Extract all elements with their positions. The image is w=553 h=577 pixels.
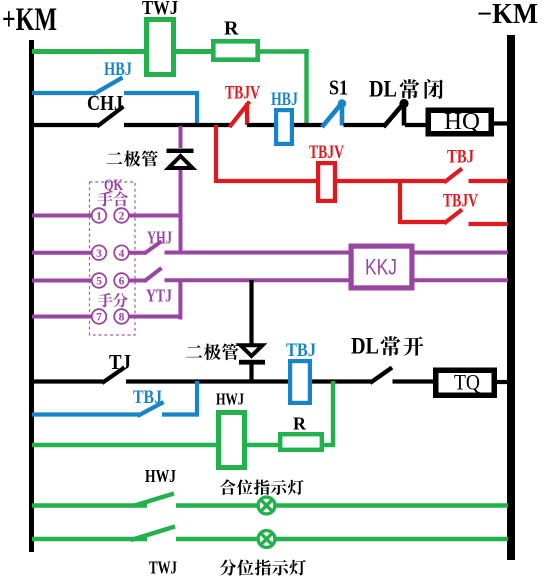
label TBJ (red contact) [447, 147, 474, 168]
wire +KM to terminal 5 [32, 279, 92, 283]
wire +KM to HWJ coil [32, 443, 218, 447]
wire +KM to TBJ contact (blue) [32, 412, 139, 416]
terminal 7 [92, 309, 107, 324]
contact TBJV blade [230, 102, 250, 128]
power bus -KM label [477, 0, 538, 30]
contact YTJ blade [144, 268, 162, 282]
wire TBJV coil to branch node [337, 179, 402, 183]
switch block QK dashed outline [90, 182, 136, 335]
wire R to node at main row [260, 49, 309, 54]
wire HBJ coil to S1 [294, 123, 323, 127]
relay coil TWJ [147, 20, 174, 75]
contact TJ blade [102, 368, 125, 384]
svg-text:−KM: −KM [477, 0, 538, 30]
diode D1 (cathode bar) [167, 149, 194, 153]
contact TBJV blade (red, lower) [444, 210, 462, 224]
wire YHJ contact to KKJ [165, 251, 351, 255]
diode D2 (cathode bar) [239, 360, 265, 365]
terminal 4 [114, 245, 129, 260]
wire TWJ coil to resistor R [176, 49, 213, 54]
wire purple vertical from main row to QK row 1-2 [179, 126, 183, 254]
contact HWJ blade (lamp row) [133, 494, 174, 507]
label CHJ [87, 91, 123, 115]
wire terminal 6 to YTJ contact [129, 279, 146, 283]
terminal 1 [92, 208, 107, 223]
wire TBJV contact to HBJ coil [247, 123, 276, 127]
label S1 [329, 76, 348, 100]
wire +KM to HWJ lamp contact [32, 503, 147, 507]
label DL chang-kai (DL normally open) [351, 334, 423, 359]
relay coil TBJV [318, 163, 335, 201]
label TBJ (blue coil) [286, 340, 316, 361]
label TBJV (coil) [309, 142, 344, 163]
svg-text:KKJ: KKJ [365, 255, 397, 280]
terminal 6 [114, 273, 129, 288]
contact HBJ blade [93, 78, 123, 95]
contact CHJ blade [97, 107, 124, 127]
label fen-wei indicator (open position lamp) [220, 559, 306, 575]
diode D2 (triangle, pointing down) [241, 345, 263, 356]
indicator lamp LD (open position) [258, 531, 275, 548]
svg-text:TWJ: TWJ [142, 0, 178, 19]
wire TBJ coil to DL normally-open contact [312, 379, 371, 383]
wire terminal 2 to vertical [129, 214, 182, 218]
wire TBJV contact to -KM bus [469, 222, 509, 226]
wire YTJ contact to KKJ [165, 278, 351, 282]
label shou-he (manual close) [97, 191, 128, 206]
resistor R (top) [213, 41, 257, 59]
contact TBJ blade (red) [444, 169, 462, 183]
label DL chang-bi (DL normally closed) [369, 77, 443, 102]
svg-text:DL: DL [369, 77, 397, 102]
wire lamp to -KM bus (row 2) [275, 537, 508, 541]
wire HWJ coil to resistor R [247, 443, 280, 447]
label KKJ [365, 255, 397, 280]
label QK [104, 177, 123, 194]
wire +KM to terminal 1 [32, 214, 92, 218]
label HWJ (lamp contact) [145, 466, 176, 486]
wire purple vertical terminal row 5-6 to row 7-8 [178, 280, 182, 320]
wire red vertical branch drop [398, 181, 402, 224]
diode D1 (triangle, pointing up) [169, 156, 193, 168]
wire +KM to TJ contact [32, 379, 103, 383]
wire blue vertical up to TJ row [195, 381, 199, 416]
power bus -KM (right vertical bus) [507, 35, 515, 560]
label R (top) [224, 18, 239, 40]
contact YHJ blade [144, 241, 162, 254]
wire TJ contact to TBJ coil [126, 379, 290, 383]
label HQ [444, 109, 480, 135]
wire green vertical up to TJ row [331, 381, 335, 447]
svg-text:HBJ: HBJ [104, 59, 132, 80]
wire diode 2 to TJ row [249, 364, 253, 383]
wire terminal 8 to vertical [129, 315, 182, 319]
svg-text:HWJ: HWJ [145, 466, 176, 486]
relay coil TBJ [290, 361, 310, 403]
contact TBJ blade (blue) [138, 402, 164, 416]
svg-text:HWJ: HWJ [216, 390, 244, 409]
wire red to TBJV coil [216, 179, 318, 183]
svg-text:R: R [293, 414, 307, 434]
power bus +KM label [2, 2, 57, 38]
wire KKJ bottom to -KM bus [414, 278, 508, 282]
wire CHJ to TBJV contact [124, 123, 231, 127]
wire TBJ contact to -KM bus [469, 179, 509, 183]
indicator lamp HD (closed position) [258, 497, 275, 514]
label HWJ (coil) [216, 390, 244, 409]
label HBJ (coil) [271, 89, 298, 110]
svg-text:DL: DL [351, 334, 379, 359]
label TJ [109, 350, 131, 374]
svg-text:5: 5 [96, 276, 102, 288]
svg-text:S1: S1 [329, 76, 348, 100]
svg-text:QK: QK [104, 177, 123, 194]
svg-text:R: R [224, 18, 239, 40]
wire lamp to -KM bus [275, 503, 508, 507]
wire branch to TBJ contact [400, 179, 445, 183]
wire HBJ vertical drop to main row [195, 91, 199, 125]
label TBJV (contact on main row) [225, 83, 260, 104]
wire TQ to -KM bus [497, 380, 508, 384]
resistor R (bottom) [280, 434, 322, 450]
wire terminal 4 to YHJ contact [129, 251, 146, 255]
svg-text:+KM: +KM [2, 2, 57, 38]
wire HWJ contact to lamp [176, 503, 259, 507]
wire +KM to CHJ contact [32, 123, 99, 127]
switch S1 blade [322, 99, 346, 127]
wire KKJ top to -KM bus [414, 251, 508, 255]
svg-text:6: 6 [119, 276, 125, 288]
label TQ [454, 370, 480, 395]
closing coil HQ box [428, 110, 491, 134]
label HBJ (contact) [104, 59, 132, 80]
svg-text:TBJV: TBJV [309, 142, 344, 163]
wire vertical green drop to main row [304, 49, 308, 126]
label TWJ [142, 0, 178, 19]
svg-text:1: 1 [96, 211, 102, 223]
tripping coil TQ box [436, 370, 495, 395]
wire HBJ contact to vertical drop [124, 91, 199, 95]
wire branch to TBJV contact [400, 220, 445, 224]
svg-text:YTJ: YTJ [146, 286, 172, 306]
label he-wei indicator (closed position lamp) [220, 479, 304, 495]
relay coil HBJ [276, 110, 292, 144]
wire +KM to HBJ contact [32, 91, 95, 95]
svg-text:TWJ: TWJ [149, 558, 177, 577]
svg-text:TBJ: TBJ [286, 340, 316, 361]
wire TWJ contact to lamp [176, 537, 259, 541]
svg-text:TBJV: TBJV [225, 83, 260, 104]
relay coil HWJ [219, 413, 245, 468]
wire from KKJ bottom line down to diode 2 [249, 280, 253, 344]
label R (bottom) [293, 414, 307, 434]
terminal 2 [114, 208, 129, 223]
label diode 1 (er-ji-guan) [107, 150, 158, 166]
wire DL contact to TQ coil [393, 379, 438, 383]
svg-text:TBJ: TBJ [447, 147, 474, 168]
label TBJV (red contact) [443, 191, 478, 212]
wire DL contact to HQ coil [405, 123, 430, 127]
contact TWJ blade (lamp row) [131, 527, 175, 541]
wire S1 to DL normally-closed contact [344, 123, 386, 127]
power bus +KM (left vertical bus) [29, 40, 34, 552]
svg-text:8: 8 [119, 312, 125, 324]
svg-text:7: 7 [96, 312, 102, 324]
wire +KM to TWJ lamp contact [32, 537, 147, 541]
wire R to green vertical [324, 443, 335, 447]
svg-text:3: 3 [96, 248, 102, 260]
wire +KM to terminal 3 [32, 251, 92, 255]
terminal 8 [114, 309, 129, 324]
svg-text:HQ: HQ [444, 109, 480, 135]
svg-text:HBJ: HBJ [271, 89, 298, 110]
svg-text:2: 2 [119, 211, 125, 223]
wire +KM to TWJ coil [32, 49, 146, 54]
wire TBJ contact right segment [162, 412, 199, 416]
wire HQ to -KM bus [492, 121, 508, 125]
wire red vertical from main row [214, 125, 218, 183]
svg-text:4: 4 [119, 248, 125, 260]
label shou-fen (manual open) [98, 293, 128, 308]
terminal 3 [92, 245, 107, 260]
label TBJ (blue contact) [133, 387, 162, 408]
wire +KM to terminal 7 [32, 315, 92, 319]
contact DL normally-open blade [370, 368, 392, 384]
label YHJ (contact) [147, 228, 172, 248]
contact DL normally-closed blade [384, 99, 409, 127]
label TWJ (lamp contact) [149, 558, 177, 577]
label YTJ (contact) [146, 286, 172, 306]
label diode 2 (er-ji-guan) [186, 344, 238, 361]
terminal 5 [92, 273, 107, 288]
relay KKJ box [351, 246, 412, 288]
svg-text:TQ: TQ [454, 370, 480, 395]
